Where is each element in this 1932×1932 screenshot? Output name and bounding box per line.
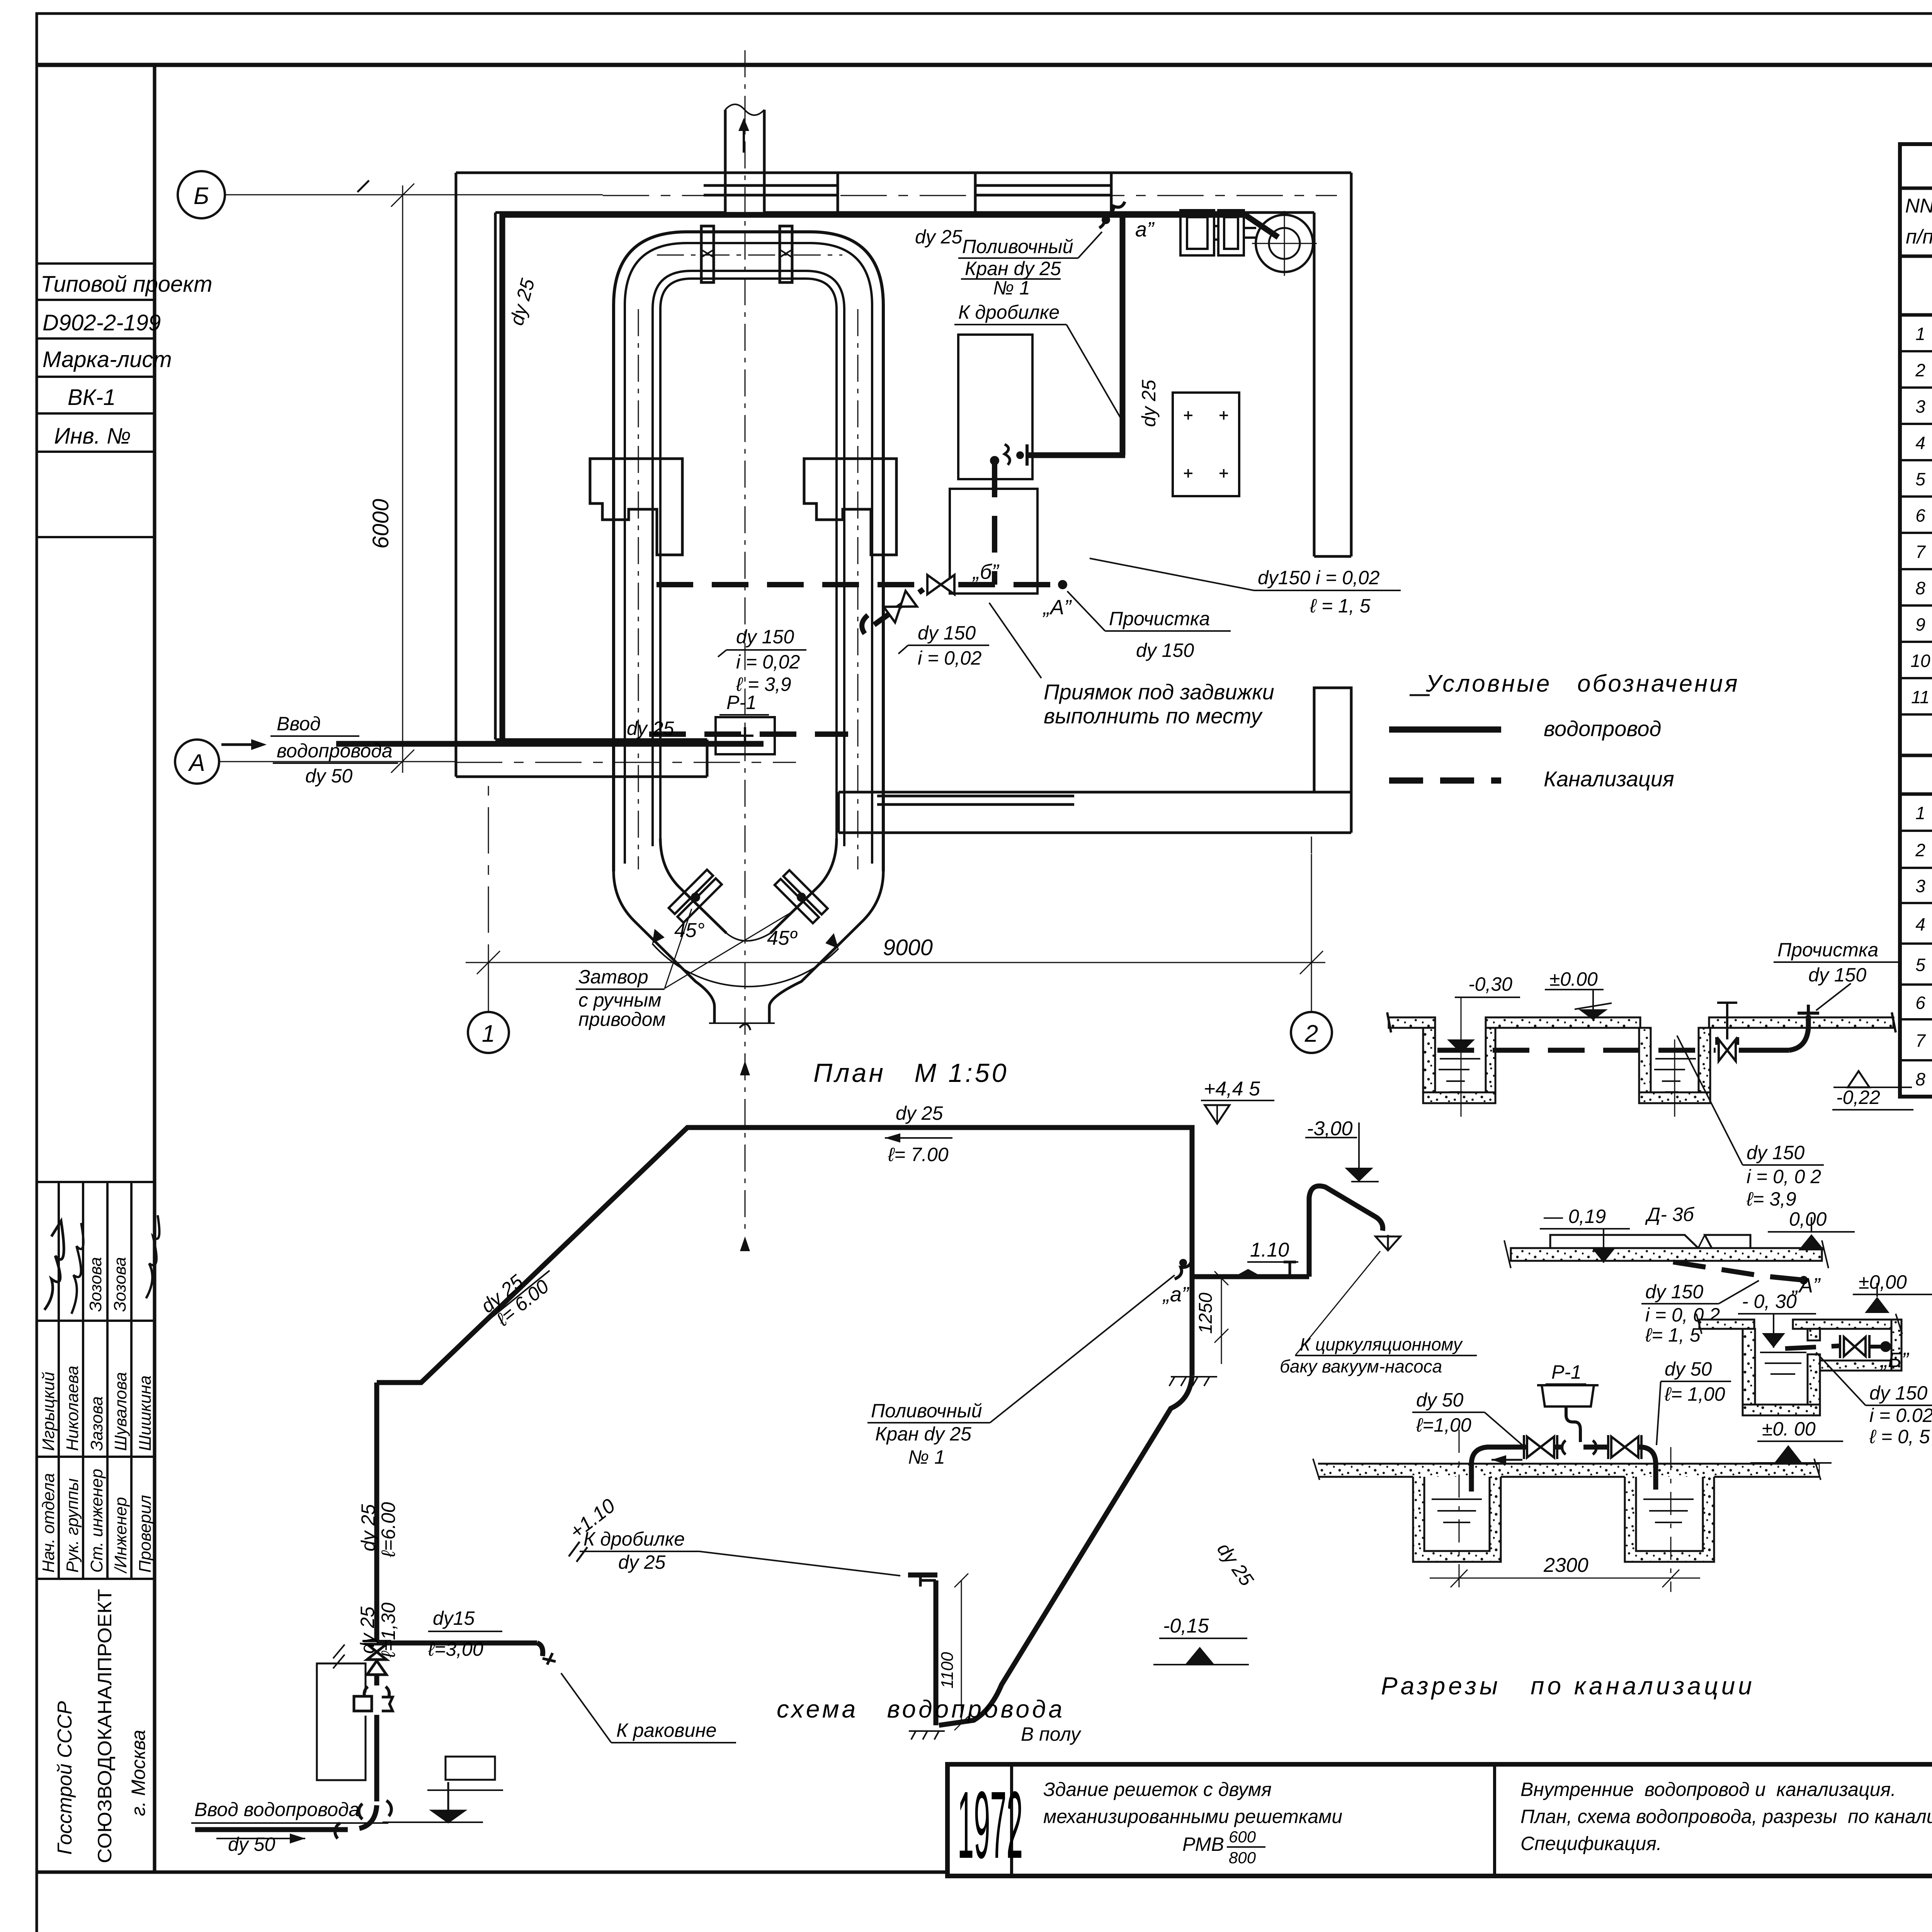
pipe: diagonal to floor dy25 xyxy=(939,1376,1192,1725)
section 2: D-3b floor xyxy=(1504,1235,1828,1268)
SPECIFICATION TABLE xyxy=(1900,144,1932,1097)
svg-text:-0,22: -0,22 xyxy=(1836,1087,1880,1108)
svg-text:с ручным: с ручным xyxy=(578,989,662,1011)
svg-text:800: 800 xyxy=(1229,1849,1256,1867)
top wall outer xyxy=(456,172,1351,174)
legend solid water line xyxy=(1389,726,1501,733)
svg-text:Рук. группы: Рук. группы xyxy=(63,1478,82,1573)
svg-text:ℓ= 1, 5: ℓ= 1, 5 xyxy=(1645,1324,1701,1346)
svg-text:4: 4 xyxy=(1915,433,1925,453)
svg-text:„б”: „б” xyxy=(972,560,999,583)
building walls xyxy=(456,173,1351,833)
svg-text:К дробилке: К дробилке xyxy=(583,1528,685,1550)
svg-text:/Инженер: /Инженер xyxy=(111,1497,130,1574)
svg-text:10: 10 xyxy=(1910,651,1930,671)
crusher circle xyxy=(1252,211,1317,276)
pipe: stub to crusher tap xyxy=(1027,452,1125,458)
svg-text:dy 50: dy 50 xyxy=(1416,1389,1464,1411)
svg-text:Условные обозначения: Условные обозначения xyxy=(1425,670,1740,697)
svg-text:dy 25: dy 25 xyxy=(357,1504,379,1551)
svg-text:4: 4 xyxy=(1915,914,1925,934)
svg-text:dy 25: dy 25 xyxy=(1138,379,1160,427)
pipe: riser dy25 xyxy=(374,1383,379,1642)
svg-text:„Б”: „Б” xyxy=(1880,1349,1909,1372)
svg-text:№ 1: № 1 xyxy=(908,1446,945,1468)
valves on sewer xyxy=(884,575,954,622)
water meter xyxy=(354,1696,372,1711)
svg-text:3: 3 xyxy=(1915,396,1925,417)
gate valve on riser xyxy=(367,1644,386,1660)
svg-text:2: 2 xyxy=(1915,360,1925,380)
boxes near crusher xyxy=(1180,210,1214,255)
svg-text:Проверил: Проверил xyxy=(136,1495,155,1573)
funnel flanges (rotated) xyxy=(669,870,828,923)
svg-text:1.10: 1.10 xyxy=(1250,1239,1289,1261)
sewer branch to sink P-1 xyxy=(649,731,848,737)
centerlines of loop xyxy=(638,50,858,1235)
screen machines (stepped brackets) xyxy=(590,459,896,555)
svg-text:Р-1: Р-1 xyxy=(726,692,757,713)
slab segments xyxy=(1389,1017,1435,1028)
svg-text:Игрыцкий: Игрыцкий xyxy=(39,1372,58,1451)
2300 dimension xyxy=(1430,1430,1700,1592)
svg-text:Д- 3б: Д- 3б xyxy=(1645,1204,1695,1225)
svg-text:±0. 00: ±0. 00 xyxy=(1762,1418,1816,1440)
left wall xyxy=(455,173,457,777)
svg-text:А: А xyxy=(187,750,205,776)
dimension 1250 xyxy=(1214,1271,1228,1364)
svg-text:45°: 45° xyxy=(674,919,705,942)
svg-text:dy15: dy15 xyxy=(433,1607,475,1629)
sidebar signature table (rotated) xyxy=(37,1182,155,1872)
bottom-right lower wall xyxy=(838,791,1351,794)
svg-text:6: 6 xyxy=(1915,505,1925,526)
channel lines right of funnel xyxy=(877,795,1074,798)
right pit walls xyxy=(1639,1028,1651,1103)
svg-text:Канализация: Канализация xyxy=(1544,767,1674,791)
svg-text:Поливочный: Поливочный xyxy=(871,1400,982,1422)
svg-text:Кран dy 25: Кран dy 25 xyxy=(965,258,1061,279)
pipe: branch to sink dy15 xyxy=(377,1641,537,1646)
svg-text:-0,15: -0,15 xyxy=(1163,1615,1209,1637)
svg-text:водопровод: водопровод xyxy=(1544,716,1661,741)
svg-text:ВК-1: ВК-1 xyxy=(68,385,116,410)
svg-text:3: 3 xyxy=(1915,876,1925,896)
top band line xyxy=(37,63,1932,67)
sewer diagonal branch xyxy=(874,589,923,625)
svg-text:Б: Б xyxy=(194,183,209,209)
svg-text:ℓ= 3,9: ℓ= 3,9 xyxy=(1746,1188,1796,1210)
gate valve on diagonal branch xyxy=(884,591,917,622)
svg-text:2300: 2300 xyxy=(1543,1554,1588,1577)
pipe: crusher feed vertical xyxy=(934,1580,939,1725)
sewer dashed lines in plan xyxy=(649,461,1061,734)
svg-text:ℓ=1,30: ℓ=1,30 xyxy=(378,1602,399,1658)
left pit xyxy=(1413,1477,1501,1562)
polivochny kran tap symbol xyxy=(1099,202,1125,228)
right pier xyxy=(1314,688,1351,792)
vvod arrow xyxy=(221,743,261,746)
row lines kanaliz xyxy=(1900,831,1932,1060)
svg-text:5: 5 xyxy=(1915,955,1925,975)
svg-text:6: 6 xyxy=(1915,993,1925,1013)
pipe: down run dy25 xyxy=(1120,212,1126,455)
pipe: branch to circulation tank xyxy=(1192,1274,1309,1279)
sink P-1 with trap xyxy=(1537,1385,1599,1442)
svg-text:Кран dy 25: Кран dy 25 xyxy=(875,1423,971,1445)
svg-text:Внутренние водопровод и кана: Внутренние водопровод и канализация. xyxy=(1520,1779,1896,1800)
svg-text:выполнить по месту: выполнить по месту xyxy=(1044,704,1263,728)
svg-text:±0.00: ±0.00 xyxy=(1549,968,1598,990)
axis circles xyxy=(175,171,1332,1053)
svg-text:Шишкина: Шишкина xyxy=(136,1376,155,1451)
water supply thick lines xyxy=(336,212,1278,747)
svg-text:Ст. инженер: Ст. инженер xyxy=(87,1469,106,1573)
svg-text:-0,30: -0,30 xyxy=(1468,973,1512,995)
svg-text:2: 2 xyxy=(1304,1020,1318,1047)
sewer branch vertical xyxy=(992,461,997,585)
svg-text:1100: 1100 xyxy=(938,1652,957,1689)
svg-text:7: 7 xyxy=(1915,1031,1926,1051)
TITLE BLOCK xyxy=(947,1764,1932,1876)
svg-text:Инв. №: Инв. № xyxy=(54,423,131,449)
svg-text:Поливочный: Поливочный xyxy=(962,236,1073,257)
svg-text:Р-1: Р-1 xyxy=(1551,1361,1582,1383)
svg-text:i = 0,02: i = 0,02 xyxy=(736,651,800,673)
scheme labels xyxy=(191,1102,1477,1855)
svg-text:баку вакуум-насоса: баку вакуум-насоса xyxy=(1280,1356,1442,1376)
screens ring (two nested loops) xyxy=(614,232,883,871)
svg-text:СОЮЗВОДОКАНАЛПРОЕКТ: СОЮЗВОДОКАНАЛПРОЕКТ xyxy=(94,1589,116,1863)
equipment rects xyxy=(950,210,1256,594)
gate valve xyxy=(1719,1039,1736,1061)
svg-text:План М 1:50: План М 1:50 xyxy=(813,1058,1009,1088)
svg-text:- 0, 30: - 0, 30 xyxy=(1742,1291,1797,1312)
svg-text:11: 11 xyxy=(1911,687,1930,707)
dimension 9000 xyxy=(466,854,1325,1012)
ground hatches xyxy=(909,1377,1217,1740)
svg-text:0,00: 0,00 xyxy=(1789,1208,1827,1230)
svg-text:Марка-лист: Марка-лист xyxy=(43,347,172,372)
svg-text:dy 25: dy 25 xyxy=(915,226,963,248)
svg-text:ℓ=6.00: ℓ=6.00 xyxy=(378,1502,399,1558)
pipe: diagonal + top run dy25 + right riser xyxy=(377,1128,1192,1383)
svg-text:схема водопровода: схема водопровода xyxy=(777,1695,1065,1723)
svg-text:dy 150: dy 150 xyxy=(1645,1281,1703,1303)
svg-text:ℓ = 1, 5: ℓ = 1, 5 xyxy=(1310,595,1371,617)
svg-text:9000: 9000 xyxy=(883,935,933,960)
tap polivochny on riser xyxy=(1175,1259,1192,1279)
valves on riser xyxy=(335,1641,393,1838)
svg-text:9: 9 xyxy=(1915,614,1925,634)
svg-text:ℓ= 1,00: ℓ= 1,00 xyxy=(1664,1383,1725,1405)
svg-text:— 0,19: — 0,19 xyxy=(1543,1206,1606,1227)
svg-text:dy 150: dy 150 xyxy=(918,622,976,644)
svg-text:ℓ = 0, 5: ℓ = 0, 5 xyxy=(1869,1426,1930,1447)
row lines vodoprovod xyxy=(1900,351,1932,714)
pipe: top wall run dy25 xyxy=(500,212,1245,218)
sewer main dy150 xyxy=(656,582,925,587)
svg-text:Нач. отдела: Нач. отдела xyxy=(39,1473,58,1573)
svg-text:dy 150: dy 150 xyxy=(736,626,794,648)
flanges on loop top xyxy=(701,226,793,282)
svg-text:Затвор: Затвор xyxy=(578,966,648,988)
svg-text:dy 25: dy 25 xyxy=(357,1606,378,1654)
svg-text:Приямок под задвижки: Приямок под задвижки xyxy=(1044,680,1274,704)
svg-text:Ввод водопровода: Ввод водопровода xyxy=(194,1799,359,1820)
45 deg arc xyxy=(652,929,838,986)
svg-text:dy 150: dy 150 xyxy=(1747,1142,1804,1163)
plan labels xyxy=(270,218,1401,1030)
svg-text:№ 1: № 1 xyxy=(993,277,1030,299)
svg-text:План, схема водопровода, разре: План, схема водопровода, разрезы по кана… xyxy=(1520,1806,1932,1827)
svg-text:600: 600 xyxy=(1229,1828,1256,1846)
svg-text:„a”: „a” xyxy=(1162,1283,1189,1306)
svg-text:а”: а” xyxy=(1135,218,1155,241)
SIDEBAR xyxy=(37,264,155,537)
level marks xyxy=(566,1078,1379,1665)
svg-text:Спецификация.: Спецификация. xyxy=(1520,1833,1662,1854)
svg-text:±0,00: ±0,00 xyxy=(1859,1271,1907,1293)
pipe: vvod dy50 horizontal xyxy=(195,1827,348,1832)
svg-text:Ввод: Ввод xyxy=(277,713,321,735)
svg-text:Прочистка: Прочистка xyxy=(1109,608,1210,629)
svg-text:Зазова: Зазова xyxy=(87,1396,106,1451)
axis lines xyxy=(219,180,1337,1012)
pit centerlines xyxy=(1461,997,1462,1117)
svg-text:dy 150: dy 150 xyxy=(1808,964,1866,986)
svg-text:„А”: „А” xyxy=(1043,596,1072,619)
water levels xyxy=(1439,1059,1480,1092)
section 3: right pit with valve xyxy=(1696,1314,1902,1415)
svg-text:-3,00: -3,00 xyxy=(1307,1117,1353,1140)
svg-text:D902-2-199: D902-2-199 xyxy=(43,310,161,335)
svg-text:dy 50: dy 50 xyxy=(1665,1358,1712,1380)
niche rectangle xyxy=(317,1645,366,1780)
SECTION TITLES xyxy=(777,1058,1755,1723)
svg-text:dy 150: dy 150 xyxy=(1136,639,1194,661)
svg-text:1: 1 xyxy=(1915,324,1925,344)
svg-text:i = 0, 0 2: i = 0, 0 2 xyxy=(1747,1166,1821,1187)
svg-text:i = 0.02: i = 0.02 xyxy=(1869,1405,1932,1426)
svg-text:i = 0,02: i = 0,02 xyxy=(918,647,982,669)
svg-text:8: 8 xyxy=(1915,578,1925,598)
P-1 sink plan xyxy=(716,717,775,754)
svg-text:dy 25: dy 25 xyxy=(618,1551,666,1573)
legend dashed sewer line xyxy=(1389,777,1501,784)
svg-text:1: 1 xyxy=(482,1020,495,1047)
svg-text:dy 25: dy 25 xyxy=(627,718,674,739)
tap K drobilke xyxy=(1005,444,1027,466)
pipe: left wall riser dy25 xyxy=(500,212,505,747)
svg-text:ℓ=1,00: ℓ=1,00 xyxy=(1416,1414,1471,1436)
svg-text:ℓ= 7.00: ℓ= 7.00 xyxy=(888,1144,949,1165)
svg-text:8: 8 xyxy=(1915,1069,1925,1089)
axis dimension: 6000 vertical xyxy=(391,184,414,773)
svg-text:1972: 1972 xyxy=(957,1772,1023,1878)
svg-text:Госстрой СССР: Госстрой СССР xyxy=(54,1701,76,1855)
pipe over pits xyxy=(1471,1447,1656,1492)
window double lines in top wall xyxy=(704,184,838,187)
check valve on riser xyxy=(367,1661,386,1675)
svg-text:Разрезы по канализации: Разрезы по канализации xyxy=(1381,1672,1755,1700)
svg-text:dy 150: dy 150 xyxy=(1869,1382,1927,1404)
svg-text:В полу: В полу xyxy=(1021,1723,1082,1745)
svg-text:6000: 6000 xyxy=(368,499,393,549)
svg-text:+4,4 5: +4,4 5 xyxy=(1204,1078,1260,1100)
svg-text:Николаева: Николаева xyxy=(63,1366,82,1451)
svg-text:РМВ: РМВ xyxy=(1182,1833,1224,1855)
flow arrows on funnel centerline xyxy=(740,1061,750,1075)
top wall inner xyxy=(495,211,725,214)
inner bottom line xyxy=(37,1871,947,1874)
svg-text:45º: 45º xyxy=(767,927,798,949)
svg-text:приводом: приводом xyxy=(578,1009,666,1030)
svg-text:К раковине: К раковине xyxy=(616,1719,717,1741)
svg-text:К циркуляционному: К циркуляционному xyxy=(1300,1334,1463,1354)
dimension 1100 xyxy=(954,1573,968,1730)
svg-text:Шувалова: Шувалова xyxy=(111,1372,130,1451)
funnel xyxy=(614,838,883,1023)
svg-text:ℓ=3,00: ℓ=3,00 xyxy=(428,1638,483,1660)
svg-text:п/п: п/п xyxy=(1906,226,1932,248)
pipe: branch to crusher xyxy=(1243,213,1278,237)
svg-text:2: 2 xyxy=(1915,840,1925,860)
right wall xyxy=(1350,173,1353,556)
LEGEND xyxy=(1389,670,1740,791)
taps on branches xyxy=(543,1262,1296,1665)
svg-text:водопровода: водопровода xyxy=(277,740,393,762)
sewer main dy150 east part xyxy=(958,582,1061,587)
svg-text:Прочистка: Прочистка xyxy=(1777,939,1878,961)
sidebar right edge xyxy=(153,65,156,1872)
section 1 (top): two pits with gate valve xyxy=(1387,997,1896,1117)
right pit xyxy=(1625,1477,1714,1562)
svg-text:dy 25: dy 25 xyxy=(896,1102,943,1124)
svg-text:К дробилке: К дробилке xyxy=(958,301,1060,323)
pipe: service entry dy50 xyxy=(336,741,764,747)
circulation nabla xyxy=(1376,1235,1400,1250)
gate valve on sewer main xyxy=(927,575,954,594)
svg-text:1250: 1250 xyxy=(1196,1293,1216,1334)
svg-text:NN: NN xyxy=(1905,195,1932,217)
svg-text:dy 50: dy 50 xyxy=(228,1833,276,1855)
chimney xyxy=(725,104,764,213)
bottom-left wall xyxy=(495,738,707,741)
svg-text:dy 50: dy 50 xyxy=(305,765,353,787)
svg-text:dy150 i = 0,02: dy150 i = 0,02 xyxy=(1258,567,1380,588)
svg-text:5: 5 xyxy=(1915,469,1925,489)
svg-text:Здание решеток с двумя: Здание решеток с двумя xyxy=(1043,1779,1272,1800)
svg-text:Зозова: Зозова xyxy=(86,1257,105,1312)
svg-text:механизированными решетками: механизированными решетками xyxy=(1043,1806,1342,1827)
main thick pipe xyxy=(195,1128,1383,1830)
svg-text:г. Москва: г. Москва xyxy=(128,1730,149,1816)
svg-text:1: 1 xyxy=(1915,803,1925,823)
svg-text:Типовой проект: Типовой проект xyxy=(41,272,213,297)
svg-text:7: 7 xyxy=(1915,542,1926,562)
elevation frame mark xyxy=(383,1757,503,1822)
svg-text:Зозова: Зозова xyxy=(111,1257,129,1312)
section 4: two pits with sink xyxy=(1313,1459,1821,1562)
left pit walls xyxy=(1423,1028,1435,1103)
